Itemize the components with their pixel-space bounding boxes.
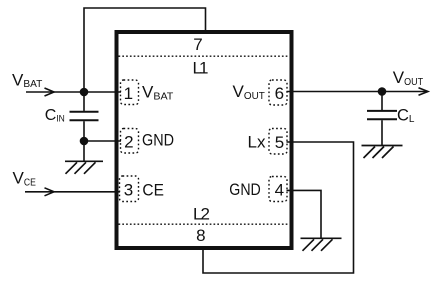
- capacitor CL: [367, 107, 415, 126]
- node VOUT label: [393, 68, 424, 88]
- wire VOUT output: [287, 88, 429, 96]
- svg-text:2: 2: [124, 132, 133, 151]
- svg-text:3: 3: [124, 180, 133, 199]
- pin 1: [121, 80, 175, 105]
- svg-text:5: 5: [275, 133, 284, 152]
- pin 7: [193, 35, 209, 78]
- svg-text:L2: L2: [193, 205, 210, 224]
- node VCE label: [13, 169, 36, 189]
- svg-text:6: 6: [275, 84, 284, 103]
- svg-text:7: 7: [193, 35, 202, 54]
- node VBAT label: [12, 70, 43, 90]
- wire VBAT input: [26, 88, 121, 96]
- ground (CL): [362, 146, 403, 159]
- op-amp U1: [117, 32, 292, 248]
- pin 8: [193, 205, 210, 245]
- node A (VBAT junction): [80, 88, 89, 97]
- wire CIN to GND node: [83, 121, 85, 141]
- pin 4: [229, 177, 287, 202]
- wire pin 4 to ground: [287, 190, 322, 238]
- svg-text:CL: CL: [397, 107, 415, 126]
- svg-text:VCE: VCE: [13, 169, 36, 189]
- wire VCE input: [25, 188, 120, 196]
- wire VBAT node to CIN: [83, 92, 85, 111]
- svg-text:GND: GND: [142, 131, 174, 150]
- wire Lx to pin 8 loop: [203, 142, 354, 273]
- pin 2: [121, 129, 175, 154]
- wire VOUT node to CL: [381, 92, 383, 111]
- wire node B to ground: [83, 141, 85, 161]
- wire CL to ground: [381, 120, 383, 145]
- pin 3: [120, 176, 164, 202]
- svg-text:GND: GND: [229, 180, 260, 199]
- wire node B to pin 2: [84, 140, 121, 142]
- wire top link node to pin 7: [84, 8, 206, 92]
- inductor L1: [119, 55, 290, 57]
- ground (input): [65, 161, 103, 174]
- svg-text:CE: CE: [142, 180, 164, 199]
- svg-text:VOUT: VOUT: [393, 68, 424, 88]
- ground (pin 4): [301, 238, 342, 251]
- svg-text:4: 4: [275, 181, 284, 200]
- svg-text:CIN: CIN: [45, 107, 65, 125]
- pin 5: [248, 129, 288, 155]
- svg-text:L1: L1: [193, 59, 209, 78]
- svg-text:1: 1: [124, 84, 133, 103]
- svg-text:8: 8: [196, 226, 205, 245]
- node B (GND junction): [80, 137, 89, 146]
- pin 6: [233, 80, 288, 105]
- svg-text:Lx: Lx: [248, 132, 266, 151]
- svg-text:VBAT: VBAT: [12, 70, 43, 90]
- inductor L2: [119, 223, 290, 225]
- node C (VOUT junction): [378, 87, 387, 96]
- capacitor CIN: [45, 107, 99, 125]
